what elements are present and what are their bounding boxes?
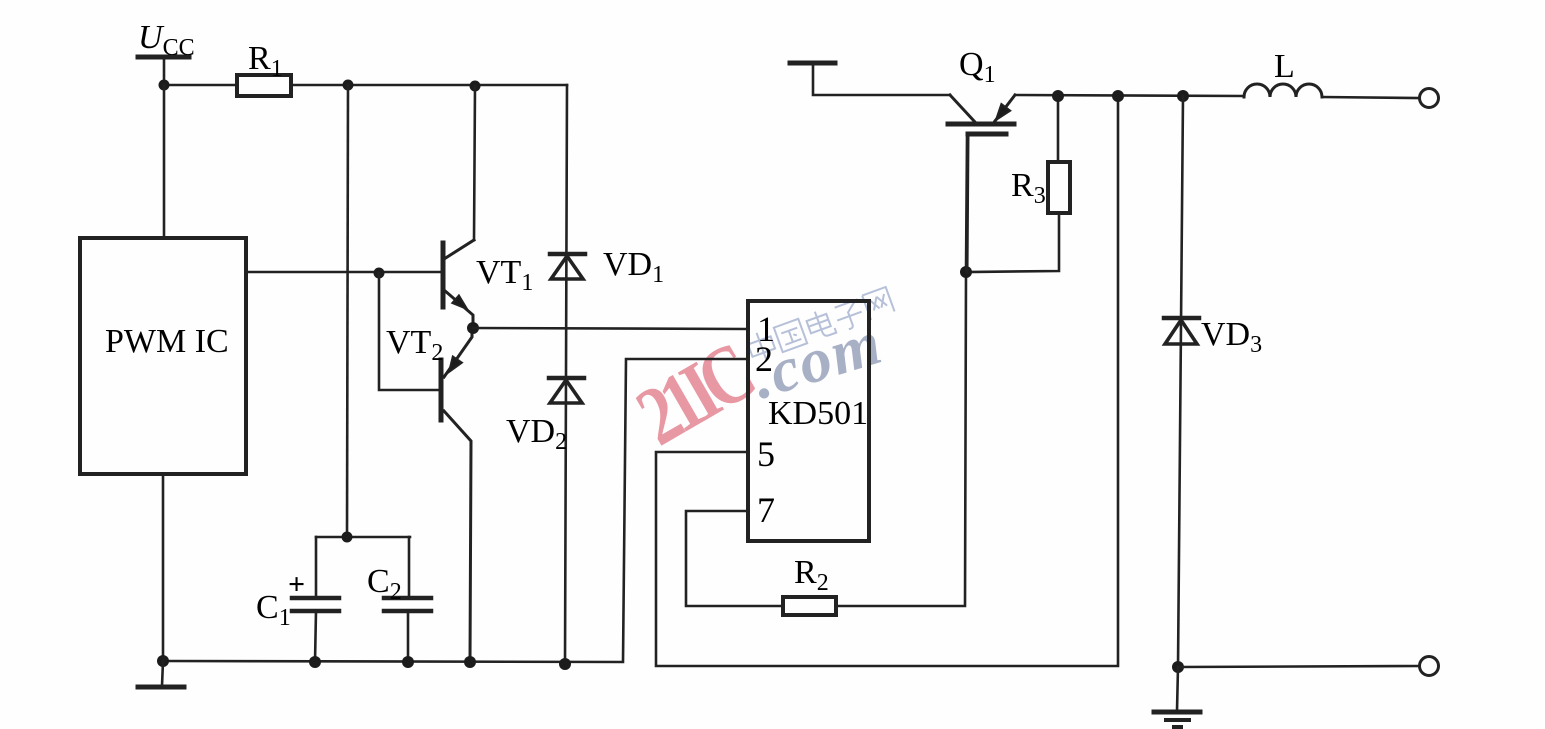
char dian bbox=[805, 307, 837, 341]
node dot top rail x475 bbox=[470, 81, 481, 92]
capacitor top rail bbox=[316, 536, 410, 539]
wire PWM IC bottom to ground rail bbox=[162, 474, 165, 661]
capacitor C2 bbox=[384, 537, 431, 662]
wire top right rail bbox=[1015, 95, 1244, 96]
svg-text:R3: R3 bbox=[1011, 167, 1046, 209]
transistor Q1 bbox=[948, 95, 1015, 272]
watermark 21IC bbox=[622, 326, 767, 463]
resistor R2 bbox=[783, 597, 836, 615]
node dot under Ucc bbox=[159, 80, 170, 91]
wire emitter node to KD501 pin1 bbox=[473, 328, 748, 329]
wire KD501 pin7 to R2 bbox=[686, 511, 783, 606]
node dot base split bbox=[374, 268, 385, 279]
ground symbol left bbox=[138, 661, 184, 687]
wire PWM IC top supply bbox=[163, 85, 166, 238]
diode VD1 bbox=[550, 254, 585, 279]
ground symbol right bbox=[1154, 667, 1200, 727]
transistor VT2 bbox=[441, 328, 472, 662]
wire VD3 branch vertical bbox=[1178, 96, 1183, 667]
svg-text:5: 5 bbox=[757, 434, 775, 474]
Ucc terminal bar bbox=[138, 55, 189, 60]
svg-text:PWM IC: PWM IC bbox=[105, 323, 229, 360]
char wang bbox=[862, 287, 894, 320]
svg-text:VT1: VT1 bbox=[476, 254, 533, 296]
transistor VT1 bbox=[443, 240, 474, 328]
node dot VT emitter junction bbox=[467, 322, 479, 334]
diode VD3 bbox=[1164, 318, 1199, 344]
svg-text:VD2: VD2 bbox=[506, 413, 567, 455]
svg-text:VT2: VT2 bbox=[386, 324, 443, 366]
capacitor C1 bbox=[292, 537, 339, 662]
svg-text:R1: R1 bbox=[248, 40, 283, 82]
node dot gnd vd2 bbox=[559, 658, 571, 670]
svg-text:2: 2 bbox=[755, 339, 773, 379]
svg-text:L: L bbox=[1274, 48, 1295, 85]
svg-text:C1: C1 bbox=[256, 589, 291, 631]
svg-text:VD1: VD1 bbox=[603, 246, 664, 288]
watermark chinese characters bbox=[745, 286, 895, 364]
node dot gnd c1 bbox=[309, 656, 321, 668]
node dot top rail x348 bbox=[343, 80, 354, 91]
output terminal top bbox=[1420, 89, 1439, 108]
wire vertical VD1/VD2 branch bbox=[565, 85, 567, 664]
svg-text:C2: C2 bbox=[367, 563, 402, 605]
svg-text:UCC: UCC bbox=[138, 19, 195, 61]
ground rail bottom left bbox=[163, 359, 748, 662]
wire terminal to Q1 emitter bbox=[813, 63, 950, 95]
svg-text:Q1: Q1 bbox=[959, 46, 996, 88]
inductor L bbox=[1244, 84, 1322, 97]
node dot gnd vt2 bbox=[464, 656, 476, 668]
resistor R1 bbox=[237, 75, 291, 96]
wire vertical x348 to capacitor rail bbox=[347, 85, 348, 537]
svg-text:KD501: KD501 bbox=[768, 395, 868, 432]
resistor R3 bbox=[966, 96, 1070, 272]
char zhong bbox=[745, 329, 777, 364]
node dot rail R3 bbox=[1052, 90, 1064, 102]
wire R2 to Q1 base node bbox=[836, 137, 967, 606]
node dot bottom right bbox=[1172, 661, 1184, 673]
output terminal bottom bbox=[1420, 657, 1439, 676]
char guo bbox=[774, 319, 807, 352]
wire PWM IC output to VT1 base bbox=[246, 271, 441, 274]
wire top rail left segment bbox=[164, 84, 237, 87]
node dot gnd pwm bbox=[157, 655, 169, 667]
node dot rail VD3 bbox=[1177, 90, 1189, 102]
watermark .com bbox=[744, 307, 891, 413]
node dot gnd c2 bbox=[402, 656, 414, 668]
input terminal bar top bbox=[790, 61, 835, 66]
node dot rail pin5 riser bbox=[1112, 90, 1124, 102]
wire Ucc to top rail bbox=[163, 57, 166, 85]
IC KD501 box bbox=[748, 301, 869, 541]
svg-text:7: 7 bbox=[757, 490, 775, 530]
node dot cap rail bbox=[342, 532, 353, 543]
svg-text:+: + bbox=[288, 568, 305, 601]
wire top rail R1 to VD line bbox=[291, 84, 567, 87]
svg-text:R2: R2 bbox=[794, 554, 829, 596]
op-amp PWM IC box bbox=[80, 238, 246, 474]
wire bottom right rail to terminal bbox=[1178, 666, 1419, 667]
wire down to VT2 base bbox=[379, 273, 439, 390]
diode VD2 bbox=[549, 378, 584, 403]
wire KD501 pin5 loop bbox=[656, 96, 1118, 666]
node dot Q1 base / R3 bbox=[960, 266, 972, 278]
wire vertical x475 to VT1 collector bbox=[474, 86, 475, 240]
char zi bbox=[833, 299, 866, 332]
svg-text:VD3: VD3 bbox=[1201, 316, 1262, 358]
wire L to output terminal bbox=[1322, 97, 1419, 98]
